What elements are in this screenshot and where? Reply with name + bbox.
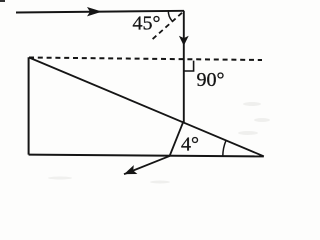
svg-text:90°: 90° xyxy=(197,69,225,91)
dashed mirror line at 45 degrees xyxy=(151,13,182,41)
arrowhead on incident ray xyxy=(87,7,102,16)
arrowhead on vertical ray xyxy=(179,36,189,46)
scan speck top-left corner xyxy=(0,0,5,2)
glass block bottom edge xyxy=(29,155,264,157)
wire: exit ray below block xyxy=(124,156,170,174)
right-angle square mark xyxy=(184,61,194,71)
45 degree angle arc at mirror corner xyxy=(168,11,172,21)
dashed horizontal normal line xyxy=(29,58,262,61)
4 degree angle arc at wedge apex xyxy=(223,141,226,157)
glass block left edge xyxy=(28,57,30,154)
faint bleed-through smudges xyxy=(48,102,270,184)
wire: vertical ray down from mirror xyxy=(183,11,185,123)
svg-text:4°: 4° xyxy=(181,134,199,156)
glass block inclined top surface (diagonal) xyxy=(29,58,264,157)
wire: refracted ray inside block xyxy=(170,122,184,157)
svg-text:45°: 45° xyxy=(133,13,161,35)
wire: incident horizontal ray xyxy=(16,11,184,13)
arrowhead on exit ray xyxy=(124,165,137,174)
